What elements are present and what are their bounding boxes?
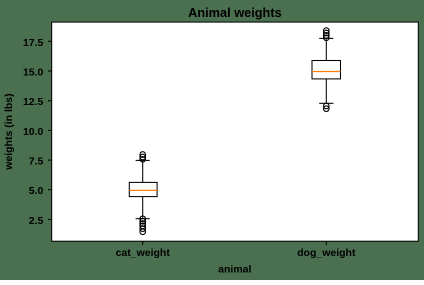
- svg-text:cat_weight: cat_weight: [116, 247, 171, 259]
- svg-text:dog_weight: dog_weight: [297, 247, 356, 259]
- svg-text:animal: animal: [218, 264, 251, 276]
- svg-text:12.5: 12.5: [23, 96, 44, 108]
- svg-text:10.0: 10.0: [23, 126, 44, 138]
- svg-text:2.5: 2.5: [29, 215, 44, 227]
- svg-text:17.5: 17.5: [23, 37, 44, 49]
- svg-text:15.0: 15.0: [23, 67, 44, 79]
- svg-text:Animal weights: Animal weights: [188, 5, 282, 20]
- svg-text:5.0: 5.0: [29, 185, 44, 197]
- svg-text:weights (in lbs): weights (in lbs): [3, 93, 15, 170]
- svg-text:7.5: 7.5: [29, 156, 44, 168]
